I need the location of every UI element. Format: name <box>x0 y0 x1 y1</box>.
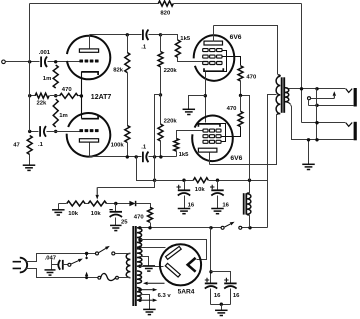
node line1 v317 <box>315 87 318 90</box>
wire shared cathode line <box>81 72 83 119</box>
node filter cap 1 top <box>182 179 185 182</box>
wire filament lead <box>143 282 165 285</box>
node 100k bottom <box>126 155 129 158</box>
label .1 feedback <box>38 142 44 148</box>
resistor 1m lower <box>53 99 58 127</box>
resistor 1k5 grid stopper lower <box>174 131 203 157</box>
svg-text:470: 470 <box>62 87 73 93</box>
ground input stage <box>23 165 36 170</box>
fuse contact left <box>98 276 101 279</box>
wire 100k to W1 <box>127 143 129 157</box>
wire OT primary top lead <box>278 75 281 76</box>
label 16 screen 2 <box>222 203 229 209</box>
grid1 6V6 upper <box>203 62 222 65</box>
standby switch arm <box>225 222 235 227</box>
wire NFB to .1 cap <box>30 131 39 133</box>
wire 6V6 upper plate lead <box>213 26 215 42</box>
label 6V6 lower <box>230 155 242 162</box>
svg-text:6.3 v: 6.3 v <box>158 293 172 299</box>
junction NFB vertical at 22k <box>28 94 31 97</box>
transformer OT primary <box>276 76 280 113</box>
resistor 470 bias <box>148 207 153 222</box>
resistor 10k bias pot <box>88 201 106 206</box>
wire input to coupling cap <box>6 61 40 63</box>
svg-text:.1: .1 <box>38 142 44 148</box>
speaker jack 2 body <box>354 122 357 141</box>
wire 82k to 100k <box>127 73 129 126</box>
wire choke top <box>247 181 250 194</box>
svg-text:5AR4: 5AR4 <box>178 289 195 296</box>
label 47 <box>13 143 20 149</box>
wire 6.3v lead 1 <box>140 288 157 291</box>
plus sign cap 16 screen 1 <box>177 185 181 189</box>
node AC top junction <box>85 252 88 259</box>
svg-text:1m: 1m <box>43 76 52 82</box>
capacitor 16 main 1 <box>205 283 217 304</box>
node v317 line5 <box>315 138 318 141</box>
capacitor 16 screen 2 <box>211 181 223 209</box>
transformer PT HV winding <box>137 228 142 248</box>
cathode lower triode <box>81 116 98 119</box>
ground main filter <box>215 310 228 315</box>
wire choke bottom <box>247 214 250 227</box>
wire screen rail left branch <box>137 157 155 181</box>
wire cathode bus 6V6 <box>205 72 207 123</box>
ground HV tap <box>143 266 156 271</box>
ground 6V6 cathodes <box>183 109 196 114</box>
choke winding <box>247 194 251 215</box>
resistor 10k bias 1 <box>67 201 85 206</box>
node filter cap 2 top <box>216 179 219 182</box>
wire caps bottom <box>211 304 231 306</box>
node sleeve ground <box>307 138 310 141</box>
capacitor .1 coupling lower <box>143 152 177 163</box>
ground filter cap 2 <box>211 209 224 214</box>
svg-text:16: 16 <box>188 203 195 209</box>
cathode 6V6 lower <box>198 124 220 127</box>
ground speaker return <box>302 164 315 169</box>
wire HV tap to rectifier cathode <box>141 240 207 260</box>
plate 6V6 lower <box>198 148 217 152</box>
node sleeve v317 <box>315 104 318 107</box>
node choke top on rail <box>248 179 251 182</box>
node 220k top <box>159 33 162 36</box>
wire OT secondary top <box>285 88 346 89</box>
wire plate to OT bottom <box>210 114 280 165</box>
diode bias <box>129 201 135 206</box>
label 16 main 1 <box>214 293 221 299</box>
label 25 <box>121 219 128 225</box>
wire 220k to bias jog <box>160 67 162 95</box>
jack 1 switch contact circle <box>308 97 311 100</box>
node choke bottom <box>248 226 251 229</box>
label 470 cathode <box>62 87 73 93</box>
label 470 screen upper <box>246 75 257 81</box>
grid lower triode <box>79 129 98 132</box>
label .047 <box>45 255 57 261</box>
capacitor 25 bias <box>110 204 122 226</box>
label 1m lower <box>59 113 68 119</box>
wire ground tap <box>141 257 149 266</box>
wire sleeve ground branch <box>308 140 310 165</box>
resistor 820 feedback <box>158 1 173 6</box>
label .1 coupling lower <box>141 144 147 150</box>
wire 6.3v center tap <box>141 295 150 310</box>
label 1k5 lower <box>179 152 190 158</box>
ground switch arm <box>71 259 83 265</box>
capacitor .1 feedback <box>40 126 55 137</box>
wire 6.3v lead 2 <box>140 299 157 302</box>
ground bias <box>52 204 65 216</box>
label 470 screen lower <box>227 106 238 112</box>
wire cap2 branch <box>211 272 231 283</box>
label 1m upper <box>43 76 52 82</box>
standby switch contact 2 <box>239 226 242 229</box>
resistor 22k <box>30 93 56 98</box>
fuse element <box>101 273 116 280</box>
label 220k lower <box>164 118 178 124</box>
junction NFB line crossing input <box>28 60 31 63</box>
node screen-rail branch <box>135 155 138 158</box>
wire switch to primary <box>115 253 131 255</box>
resistor 470 screen lower <box>238 111 243 126</box>
wire 1k5 to 6V6 grid <box>178 58 203 62</box>
capacitor .001 input coupling <box>41 57 55 68</box>
node cathode ground branch <box>204 94 207 97</box>
wire B+ rail <box>140 227 268 229</box>
transformer OT secondary <box>285 88 289 102</box>
ground 25 cap <box>110 225 122 230</box>
ground 6.3v center tap <box>143 309 156 314</box>
wire AC top <box>26 254 96 262</box>
wire 6V6 lower plate lead <box>209 153 211 165</box>
label 6V6 upper <box>230 34 242 41</box>
capacitor .1 coupling upper <box>143 30 161 41</box>
resistor 1m grid leak upper <box>53 65 58 88</box>
grid2 6V6 upper <box>203 55 222 58</box>
node AC bottom junction <box>85 272 88 280</box>
svg-text:100k: 100k <box>111 142 125 148</box>
node plate2 tap <box>138 265 141 268</box>
wire to main ground <box>221 305 223 311</box>
tube 6V6 upper envelope <box>194 35 235 81</box>
svg-text:16: 16 <box>222 203 229 209</box>
junction NFB at 47 <box>28 130 31 133</box>
node bias crossing W1 <box>153 155 156 158</box>
label 22k <box>37 100 48 106</box>
jack 1 switch arrow <box>333 91 336 98</box>
svg-text:10k: 10k <box>195 187 206 193</box>
plus sign cap 16 screen 2 <box>210 185 214 189</box>
node NFB tap <box>300 87 303 90</box>
svg-text:1k5: 1k5 <box>180 36 191 42</box>
wire Bplus to caps <box>210 228 212 283</box>
grid3 6V6 upper <box>203 49 222 52</box>
label .1 coupling upper <box>141 45 147 51</box>
wire to rectifier plate 2 <box>141 266 164 268</box>
node HV center tap <box>138 238 141 241</box>
node plate1 tap <box>138 246 141 249</box>
svg-text:820: 820 <box>160 11 171 17</box>
jack 1 switch line <box>311 98 335 100</box>
transformer PT 6.3V winding <box>137 288 142 301</box>
wire .047 stub <box>51 260 53 265</box>
label 82k <box>113 68 124 74</box>
node cap2 branch <box>209 270 212 273</box>
svg-text:6V6: 6V6 <box>230 155 242 162</box>
node lower grid junction <box>54 130 57 133</box>
svg-text:470: 470 <box>227 106 238 112</box>
grid1 6V6 lower <box>203 129 221 132</box>
resistor 220k lower grid leak <box>158 95 163 157</box>
node grid1 junction <box>54 60 57 63</box>
wire bias line <box>59 203 130 205</box>
label 220k upper <box>164 68 178 74</box>
svg-text:220k: 220k <box>164 68 178 74</box>
node cathode 470 junction <box>80 94 83 97</box>
ground .047 <box>45 265 56 276</box>
wire cap to grid <box>56 61 80 63</box>
svg-text:.047: .047 <box>45 255 57 261</box>
svg-text:12AT7: 12AT7 <box>91 94 112 101</box>
plate lower triode <box>79 139 98 142</box>
label 5AR4 <box>178 289 195 296</box>
plus cap main 1 <box>205 278 209 282</box>
node 470 bias junction <box>148 226 151 229</box>
power switch contact 1 <box>96 252 99 255</box>
wire grid node to 1k5 <box>161 35 178 41</box>
label .001 <box>39 50 51 56</box>
wire fuse to primary <box>119 277 131 279</box>
node 22k junction <box>54 94 57 97</box>
label 16 screen 1 <box>188 203 195 209</box>
svg-text:470: 470 <box>246 75 257 81</box>
node caps ground <box>220 303 223 306</box>
AC plug <box>13 258 28 273</box>
svg-text:10k: 10k <box>91 211 102 217</box>
wire screens feed <box>241 96 250 181</box>
choke core <box>244 193 247 214</box>
wire 470 bias to B+ rail <box>150 223 152 228</box>
wire g3 tie upper <box>223 51 227 72</box>
fuse contact right <box>116 276 119 279</box>
tube 6V6 lower envelope <box>192 116 233 162</box>
label 820 <box>160 11 171 17</box>
wire to lower grid <box>56 131 80 133</box>
standby switch contact 1 <box>221 226 224 229</box>
grid3 6V6 lower <box>203 140 221 143</box>
wire v317 <box>316 89 318 140</box>
wire wiper to bias vertical <box>98 95 155 188</box>
resistor 82k plate load <box>125 35 130 73</box>
node 220k lower bottom <box>159 155 162 158</box>
resistor 220k upper grid leak <box>158 35 163 67</box>
speaker jack 1 tip contact <box>346 89 352 93</box>
plate 6V6 upper <box>204 41 223 45</box>
wire jack 1 sleeve <box>309 105 354 107</box>
plus cap main 2 <box>224 278 228 282</box>
plate 1 5AR4 <box>166 246 182 259</box>
svg-text:.1: .1 <box>141 45 147 51</box>
resistor 470 screen upper <box>238 66 243 81</box>
wire NFB takeoff vertical <box>301 4 303 123</box>
node 82k top <box>126 33 129 36</box>
svg-text:1m: 1m <box>59 113 68 119</box>
wire switch to sleeve <box>308 100 310 106</box>
svg-text:82k: 82k <box>113 68 124 74</box>
cathode 5AR4 <box>188 258 196 272</box>
tube 12AT7 lower envelope <box>67 113 111 157</box>
node 25 cap top <box>114 202 117 205</box>
cathode 6V6 upper <box>204 68 223 71</box>
svg-text:.1: .1 <box>141 144 147 150</box>
tube 5AR4 envelope <box>160 244 201 285</box>
plate 2 5AR4 <box>165 263 180 277</box>
minus sign 25 cap <box>109 209 112 211</box>
speaker jack 2 tip contact <box>346 123 352 127</box>
capacitor .047 symbol <box>52 260 68 270</box>
wire AC bottom <box>26 269 98 278</box>
label 12AT7 <box>91 94 112 101</box>
node 6.3v lead 1 <box>138 288 141 291</box>
label 6.3v <box>158 293 172 299</box>
label 10k bias pot <box>91 211 102 217</box>
node HV top <box>138 226 141 229</box>
ground switch contact <box>68 263 71 266</box>
wire diode to 470 <box>136 204 151 208</box>
svg-text:16: 16 <box>233 293 240 299</box>
resistor 1k5 grid stopper upper <box>175 40 180 58</box>
svg-text:22k: 22k <box>37 100 48 106</box>
svg-text:.001: .001 <box>39 50 51 56</box>
node bias jog <box>159 93 162 96</box>
resistor 470 cathode <box>56 93 82 98</box>
svg-text:10k: 10k <box>68 211 79 217</box>
wire screen rail <box>155 180 268 182</box>
node B+ to caps <box>209 226 212 229</box>
wire plate rail upper <box>90 34 142 36</box>
svg-text:16: 16 <box>214 293 221 299</box>
wire NFB rail <box>30 4 302 132</box>
label 10k bias 1 <box>68 211 79 217</box>
node jack2 tip v317 <box>315 121 318 124</box>
resistor 47 feedback <box>27 136 32 155</box>
svg-text:1k5: 1k5 <box>179 152 190 158</box>
label 1k5 upper <box>180 36 191 42</box>
label 16 main 2 <box>233 293 240 299</box>
wire g3 tie lower <box>221 124 226 142</box>
grid upper triode <box>79 60 98 63</box>
wire to rectifier plate 1 <box>141 247 166 249</box>
power switch arm <box>99 246 110 253</box>
label 10k screen <box>195 187 206 193</box>
transformer PT rectifier winding <box>137 249 142 266</box>
svg-text:47: 47 <box>13 143 20 149</box>
speaker jack 1 body <box>354 88 357 107</box>
wire screen tap upper <box>223 57 241 66</box>
node rail bias crossing <box>153 179 156 182</box>
wire 470 lower leads <box>221 96 241 137</box>
wire bias jog <box>155 95 161 157</box>
wire OT secondary bottom <box>285 102 354 140</box>
ground filter cap 1 <box>178 209 191 214</box>
resistor 10k screen rail <box>193 178 208 183</box>
node screens junction <box>239 94 242 97</box>
pot wiper arrow <box>96 187 99 199</box>
svg-text:470: 470 <box>134 215 145 221</box>
label 100k <box>111 142 125 148</box>
transformer OT core <box>282 77 285 113</box>
input jack terminal <box>2 60 6 64</box>
svg-text:220k: 220k <box>164 118 178 124</box>
wire 47 to ground <box>29 155 31 166</box>
label 470 bias <box>134 215 145 221</box>
wire lower plate line <box>90 156 142 158</box>
transformer PT core <box>133 226 136 306</box>
power switch contact 2 <box>112 252 115 255</box>
wire 470 to screens node <box>240 81 242 96</box>
svg-text:6V6: 6V6 <box>230 34 242 41</box>
node 6.3v lead 2 <box>138 299 141 302</box>
svg-text:25: 25 <box>121 219 128 225</box>
wire jack 2 tip line <box>302 122 346 124</box>
wire B+ to OT center tap <box>268 95 277 228</box>
wire upper plate lead <box>89 35 91 49</box>
wire 6V6 plate to OT <box>214 26 278 75</box>
wire cathode to ground <box>189 96 206 110</box>
grid2 6V6 lower <box>203 135 221 138</box>
transformer PT 5V winding <box>137 271 142 283</box>
wire OT center tap stub <box>268 94 277 96</box>
capacitor 16 main 2 <box>224 283 236 304</box>
tube 12AT7 upper envelope <box>67 36 110 80</box>
wire lower plate lead <box>89 143 91 157</box>
plate upper triode <box>79 49 98 52</box>
transformer PT primary <box>126 253 130 277</box>
resistor 100k <box>125 126 130 143</box>
cathode upper triode <box>81 72 98 75</box>
capacitor 16 screen 1 <box>178 181 190 209</box>
